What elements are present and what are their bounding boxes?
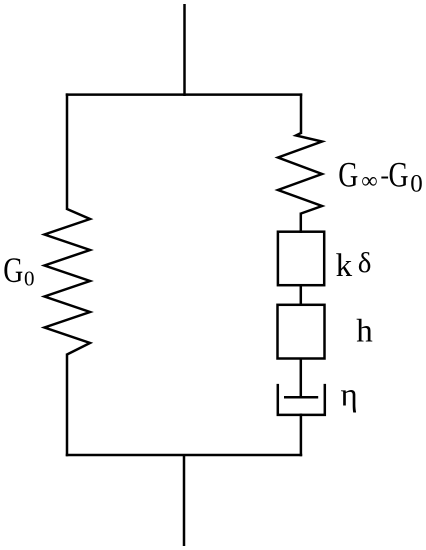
wire: right branch upper segment bbox=[300, 93, 303, 134]
spring Ginf-G0 bbox=[278, 133, 322, 214]
wire: dashpot to bottom bar bbox=[300, 414, 303, 457]
svg-text:G: G bbox=[338, 155, 358, 195]
wire: top lead bbox=[183, 4, 186, 96]
wire: left branch upper segment bbox=[66, 93, 69, 210]
svg-text:G: G bbox=[389, 155, 409, 195]
wire: bottom lead bbox=[183, 455, 186, 546]
wire: spring to friction box k delta bbox=[300, 213, 303, 234]
svg-text:G: G bbox=[3, 250, 23, 290]
dashpot piston plate bbox=[284, 396, 318, 399]
wire: bottom bar bbox=[66, 454, 302, 457]
svg-text:h: h bbox=[356, 313, 373, 349]
wire: top bar bbox=[66, 93, 303, 96]
wire: box k delta to box h bbox=[300, 284, 303, 306]
svg-text:0: 0 bbox=[24, 266, 35, 290]
svg-text:0: 0 bbox=[410, 170, 423, 197]
friction box k delta bbox=[278, 232, 324, 286]
svg-text:δ: δ bbox=[358, 247, 372, 279]
wire: left branch lower segment bbox=[66, 354, 69, 457]
spring G0 bbox=[45, 209, 91, 355]
svg-text:η: η bbox=[341, 377, 358, 413]
dashpot cup eta bbox=[278, 384, 325, 415]
svg-text:∞: ∞ bbox=[361, 168, 377, 193]
svg-text:k: k bbox=[336, 248, 353, 284]
wire: dashpot piston rod bbox=[300, 358, 303, 399]
friction box h bbox=[278, 305, 325, 359]
